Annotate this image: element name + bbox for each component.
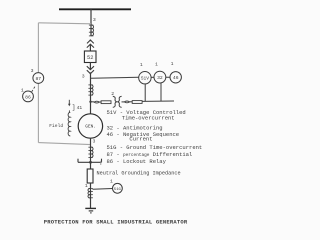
svg-text:1: 1 (85, 183, 88, 189)
svg-text:3: 3 (82, 73, 85, 79)
svg-text:1: 1 (140, 62, 143, 68)
svg-text:GEN.: GEN. (85, 124, 96, 130)
svg-text:PROTECTION FOR SMALL INDUSTRIA: PROTECTION FOR SMALL INDUSTRIAL GENERATO… (44, 218, 188, 225)
svg-text:2: 2 (111, 91, 114, 97)
svg-text:51G: 51G (114, 188, 122, 192)
svg-text:1: 1 (21, 87, 24, 93)
svg-text:3: 3 (93, 138, 96, 144)
svg-text:41: 41 (77, 105, 83, 111)
svg-text:Time-overcurrent: Time-overcurrent (122, 115, 175, 122)
svg-text:1: 1 (110, 179, 113, 185)
svg-text:1: 1 (171, 61, 174, 67)
svg-text:1: 1 (155, 62, 158, 68)
svg-text:46: 46 (173, 75, 179, 81)
svg-text:3: 3 (93, 17, 96, 23)
svg-text:86: 86 (25, 94, 31, 100)
svg-text:Neutral Grounding Impedance: Neutral Grounding Impedance (97, 171, 181, 177)
svg-text:52: 52 (87, 55, 93, 61)
svg-text:87 - percentage Differential: 87 - percentage Differential (107, 151, 193, 158)
svg-text:51V: 51V (141, 75, 149, 81)
svg-text:Field: Field (49, 123, 63, 129)
svg-text:3: 3 (31, 68, 34, 74)
svg-text:86 - Lockout Relay: 86 - Lockout Relay (107, 158, 167, 165)
svg-text:32: 32 (157, 75, 163, 81)
svg-text:Current: Current (129, 136, 152, 143)
svg-text:87: 87 (35, 76, 41, 82)
svg-text:]: ] (72, 104, 76, 111)
svg-text:51G - Ground Time-overcurrent: 51G - Ground Time-overcurrent (107, 144, 203, 151)
